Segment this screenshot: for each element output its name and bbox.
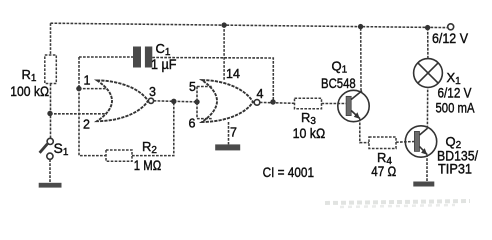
svg-text:6/12 V: 6/12 V	[438, 86, 472, 101]
svg-text:6/12 V: 6/12 V	[432, 31, 468, 46]
svg-text:TIP31: TIP31	[438, 162, 472, 177]
node gate2 input junction	[194, 99, 199, 104]
wire R1 top lead	[50, 23, 52, 55]
svg-text:7: 7	[230, 126, 237, 140]
transistor Q1 BC548	[338, 90, 369, 121]
svg-text:500 mA: 500 mA	[436, 101, 475, 116]
scan noise band	[325, 201, 470, 203]
svg-text:2: 2	[83, 118, 90, 132]
wire Q2 collector to lamp	[426, 87, 428, 128]
wire pin 1 input	[79, 88, 107, 90]
ground (Q2)	[413, 182, 434, 187]
NOR gate G1 (pins 1,2,3)	[97, 80, 148, 121]
node pin3/R2 junction	[171, 99, 176, 104]
wire pin 14 to rail	[223, 25, 225, 80]
wire Q2 emitter to ground	[426, 154, 428, 181]
wire pin3 to gate2 inputs	[154, 101, 197, 102]
node R1/S1/pin2 junction	[47, 111, 52, 116]
wire R4 to Q2 base	[396, 141, 414, 144]
wire pin 6 input	[197, 118, 212, 120]
ground (pin 7)	[215, 144, 240, 150]
wire R1 bottom lead	[50, 84, 52, 139]
svg-text:10 kΩ: 10 kΩ	[293, 126, 326, 141]
wire R3 to Q1 base	[322, 103, 347, 105]
node Q1 collector/rail junction	[358, 24, 363, 29]
svg-text:4: 4	[257, 87, 264, 101]
wire lamp to rail	[427, 28, 429, 59]
resistor R1	[45, 55, 57, 84]
wire top supply rail	[51, 23, 449, 27]
wire C1 branch vertical	[78, 57, 80, 89]
ground (S1)	[39, 183, 62, 188]
svg-text:14: 14	[226, 67, 240, 81]
output bubble pin 4	[254, 100, 260, 106]
supply terminal 6/12 V	[448, 24, 454, 30]
node pin14/rail junction	[221, 22, 226, 27]
svg-text:100 kΩ: 100 kΩ	[10, 84, 49, 99]
node pin4/C1 junction	[270, 99, 275, 104]
wire gate2 input bracket	[196, 87, 198, 119]
svg-text:5: 5	[189, 80, 196, 94]
wire pin 7 to ground	[228, 122, 230, 144]
capacitor C1	[133, 47, 141, 68]
svg-text:1: 1	[84, 74, 91, 88]
transistor Q2 BD135/TIP31	[405, 126, 436, 157]
wire pin4 to R3	[260, 101, 295, 104]
switch S1	[47, 138, 53, 144]
wire R2 right lead	[132, 101, 174, 155]
svg-text:6: 6	[189, 117, 196, 131]
wire pin 2 input	[50, 113, 107, 115]
wire Q1 emitter to R4	[360, 119, 369, 143]
wire R2 left vertical	[79, 89, 106, 156]
svg-text:1 µF: 1 µF	[151, 57, 177, 72]
wire S1 to ground	[49, 159, 51, 183]
wire Q1 collector to rail	[360, 27, 362, 91]
wire C1 left lead	[79, 56, 133, 58]
lamp X1	[414, 59, 443, 88]
resistor R3	[295, 98, 322, 109]
wire pin 5 input	[197, 86, 212, 88]
NOR gate G2 (pins 5,6,4)	[202, 80, 253, 122]
node lamp/rail junction	[425, 25, 430, 30]
wire C1 right lead	[152, 58, 273, 103]
svg-text:CI = 4001: CI = 4001	[263, 165, 314, 180]
node pin1/C1/R2 junction	[76, 86, 81, 91]
resistor R2	[106, 150, 132, 161]
svg-text:47 Ω: 47 Ω	[371, 164, 396, 179]
svg-text:3: 3	[149, 85, 156, 99]
svg-text:BC548: BC548	[321, 76, 356, 91]
resistor R4	[369, 137, 396, 149]
output bubble pin 3	[148, 98, 153, 103]
svg-text:1 MΩ: 1 MΩ	[134, 158, 161, 173]
